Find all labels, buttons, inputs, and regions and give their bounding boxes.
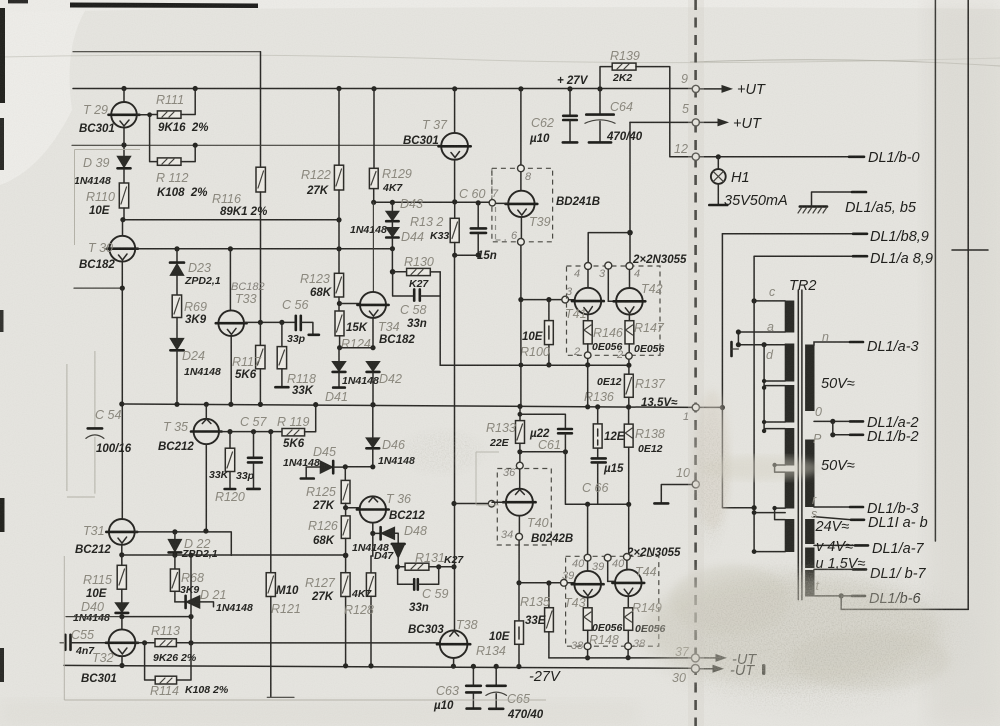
wire T33 base line xyxy=(244,320,295,325)
resistor R148 xyxy=(583,608,592,643)
label T30 xyxy=(88,241,113,255)
TR2 primary bar 5 xyxy=(785,472,794,508)
stain bottom right speckle xyxy=(640,565,950,690)
label T41 xyxy=(565,307,587,321)
tap s wire DL1/a-b xyxy=(811,507,864,521)
tap d xyxy=(736,329,785,362)
tap n wire DL1/a-3 xyxy=(814,330,863,345)
transistor T35 xyxy=(191,404,222,531)
label BC301 (T32) xyxy=(81,673,117,685)
label M10 (R121) xyxy=(276,585,299,597)
label 4n7 xyxy=(75,645,95,657)
label R136 xyxy=(584,390,614,404)
resistor R120 xyxy=(225,432,236,489)
frame line right 1 xyxy=(934,0,936,541)
label 33p (C57) xyxy=(236,470,255,482)
wire T41 column to rail xyxy=(587,365,589,407)
label 4K7 (R128) xyxy=(351,588,372,600)
tap r wire DL1/b-3 xyxy=(812,493,863,507)
resistor R132 xyxy=(450,202,459,258)
wire upper base line pin3 xyxy=(521,297,562,302)
diode D42 xyxy=(366,362,380,408)
resistor R111 xyxy=(150,89,196,119)
resistor R136 12E xyxy=(593,407,602,458)
label 5K6 (R117) xyxy=(235,369,257,381)
dashed box T43 T44 xyxy=(566,556,659,646)
label 470/40 (C64) xyxy=(606,131,643,143)
label 15K xyxy=(346,322,368,334)
label 10E (R115) xyxy=(86,588,107,600)
label DL1/b-2 xyxy=(867,429,919,445)
label 22E (R133) xyxy=(489,437,510,449)
label BD241B xyxy=(556,196,600,208)
label T37 xyxy=(422,118,448,132)
wire pin3 to T42 base xyxy=(608,269,616,301)
label D46 xyxy=(382,438,405,452)
transistor T44 xyxy=(612,560,644,608)
pin 8 xyxy=(518,165,533,183)
stain right mid xyxy=(694,390,820,530)
label ZPD2,1 xyxy=(184,275,221,287)
resistor R127 xyxy=(341,555,350,665)
TR2 secondary bar 3 xyxy=(806,520,814,544)
zener D22 xyxy=(168,532,181,555)
label R112 xyxy=(156,171,188,185)
label DL1/a 8,9 xyxy=(870,251,933,267)
label 2x2N3055 (upper) xyxy=(632,254,687,266)
resistor R115 xyxy=(117,555,126,603)
label ZPD2,1 (D22) xyxy=(181,548,218,560)
terminal 12 xyxy=(674,142,699,160)
resistor R147 xyxy=(625,321,634,353)
label D42 xyxy=(379,372,402,386)
wire T43 T44 collector columns xyxy=(588,504,629,554)
capacitor C64 electrolytic xyxy=(585,89,615,142)
label 9K26 2% xyxy=(153,652,197,664)
tap t wire DL1/b-6 xyxy=(814,579,865,599)
wire R132 node down to T38 collector xyxy=(451,255,456,630)
resistor R122 xyxy=(334,89,343,274)
terminal 30 xyxy=(672,665,699,686)
wire terminal 10 ground stub xyxy=(654,485,692,504)
label 0E12 (R137) xyxy=(597,376,622,388)
wire D45 D46 R125 node xyxy=(343,464,376,469)
pencil box C54 xyxy=(67,351,95,497)
wire T36 base xyxy=(346,507,360,509)
label T43 xyxy=(564,596,586,610)
label C61 xyxy=(538,438,561,452)
label BC212 (T35) xyxy=(158,441,194,453)
tap c xyxy=(752,285,786,304)
label 1N4148 (D47 D48) xyxy=(352,542,389,554)
wire T29 base to R111/R112 xyxy=(137,112,158,161)
wire input top xyxy=(73,51,261,53)
TR2 primary bar 3 xyxy=(785,386,794,423)
wire R124 D41 T34 emitter junction xyxy=(340,347,373,349)
lamp H1 xyxy=(709,154,727,205)
capacitor C65 electrolytic xyxy=(486,666,507,708)
capacitor C58 xyxy=(393,272,441,301)
transistor T37 xyxy=(439,89,471,202)
label D23 xyxy=(188,261,211,275)
faint pencil line bottom xyxy=(64,556,546,700)
wire -UT line xyxy=(549,657,692,659)
pin 3 (top) xyxy=(599,262,612,280)
wire pin3 to T41 xyxy=(569,299,575,301)
label D41 xyxy=(325,390,348,404)
wire lower drive bus 504 xyxy=(565,452,631,507)
wire T40 emitter column xyxy=(516,540,521,585)
transistor T36 xyxy=(357,496,389,536)
resistor R116 xyxy=(256,167,265,192)
resistor R135 xyxy=(545,583,554,658)
pin 38 (T43) xyxy=(571,640,591,652)
diode D43 xyxy=(386,202,399,227)
resistor R131 xyxy=(398,563,454,570)
capacitor C59 xyxy=(398,567,439,590)
right margin shade xyxy=(925,0,1000,726)
label C63 xyxy=(436,684,459,698)
label K108 2% (R112) xyxy=(157,187,208,199)
label 0E056 (R146) xyxy=(592,341,623,353)
dashed box T41 T42 xyxy=(567,266,661,355)
resistor R117 xyxy=(256,322,265,404)
label 2K2 xyxy=(612,72,632,84)
label 33p xyxy=(287,333,306,345)
TR2 core xyxy=(798,290,802,600)
resistor R133 xyxy=(516,406,525,462)
capacitor C63 xyxy=(466,666,481,708)
label R118 xyxy=(287,372,316,386)
arrow +UT (9) xyxy=(699,82,766,98)
resistor R123 xyxy=(334,273,343,311)
label 27K (R127) xyxy=(311,591,334,603)
label 13,5V xyxy=(641,397,678,409)
label R117 xyxy=(232,355,262,369)
label K27 (R130) xyxy=(409,278,429,290)
paper creases xyxy=(0,55,1000,62)
pencil box D39 R110 xyxy=(75,150,141,246)
label DL1I a-b xyxy=(868,515,928,531)
label T35 xyxy=(163,420,188,434)
resistor R114 xyxy=(145,555,191,684)
wire input vertical to R116 xyxy=(260,52,262,168)
pin 40b (T44 top) xyxy=(612,554,630,571)
TR2 secondary bar 4 xyxy=(806,548,814,568)
transistor T31 xyxy=(106,519,137,558)
capacitor C61 xyxy=(520,414,572,452)
pencil box terminal 7l xyxy=(476,452,499,505)
resistor R129 xyxy=(369,89,378,203)
wire +27V rail xyxy=(73,86,692,92)
diode D39 xyxy=(117,145,131,183)
label DL1/a-2 xyxy=(867,415,919,431)
label R148 xyxy=(589,633,619,647)
wire T31 emitter line xyxy=(122,553,349,559)
label 10E (R110) xyxy=(89,205,110,217)
pin 36 xyxy=(503,462,523,479)
wire T30 emitter column down to T31 xyxy=(119,288,124,519)
pin 39L (T43 base) xyxy=(561,570,575,586)
box bottom DL1 xyxy=(841,596,968,610)
transistor T40 xyxy=(492,469,536,533)
tap P wire DL1/b-2 xyxy=(813,421,863,446)
resistor R121 xyxy=(266,573,294,698)
label 2x2N3055 (lower) xyxy=(626,547,681,559)
wire pins38 to -UT rail xyxy=(585,650,631,661)
capacitor C57 xyxy=(247,432,261,489)
diode D45 xyxy=(301,461,346,479)
wire output to pin5 xyxy=(630,121,692,123)
label R115 xyxy=(83,573,112,587)
label R139 xyxy=(610,49,640,63)
label D39 xyxy=(83,156,109,170)
label 4K7 (R129) xyxy=(382,182,403,194)
wire T30 base rail to D44 node xyxy=(135,246,392,251)
label T32 xyxy=(92,651,114,665)
wire C57 node down to R121 xyxy=(270,432,272,573)
wire T34 base xyxy=(339,303,360,305)
label R132 xyxy=(410,215,443,229)
label BC182 (T30) xyxy=(79,259,115,271)
wire DL1/b8,9 xyxy=(722,233,867,235)
TR2 primary bar 4 xyxy=(785,429,794,466)
label R122 xyxy=(301,168,331,182)
connector mark left of TR2 xyxy=(732,342,739,356)
label T44 xyxy=(635,565,657,579)
label D22 xyxy=(184,537,210,551)
transistor T41 xyxy=(572,270,604,321)
label 0E056 (R147) xyxy=(634,343,665,355)
label DL1/ b-7 xyxy=(870,566,927,582)
tap a xyxy=(738,320,785,334)
wire emitter bus 365 xyxy=(440,359,631,368)
transistor T34 xyxy=(357,202,388,350)
TR2 secondary bar 1 xyxy=(806,345,814,411)
label R137 xyxy=(635,377,666,391)
arrow -UT xyxy=(700,652,758,668)
resistor R149 xyxy=(624,608,633,643)
label 33K (R120) xyxy=(209,469,230,481)
label BC182 (T34) xyxy=(379,334,415,346)
label 15n xyxy=(477,250,497,262)
label +27V xyxy=(557,75,589,87)
label C66 xyxy=(582,481,608,495)
pin 39 (top) xyxy=(592,554,611,573)
label D43 xyxy=(400,197,423,211)
label R116 xyxy=(212,192,241,206)
label 0E12 (R138) xyxy=(638,443,663,455)
label R146 xyxy=(593,326,623,340)
label R69 xyxy=(184,300,207,314)
pin 3 left (T41 base) xyxy=(562,286,573,303)
label DL1/a-3 xyxy=(867,339,919,355)
label DL1/a5,b5 xyxy=(845,200,917,216)
resistor R128 xyxy=(366,556,375,666)
label 33n (C59) xyxy=(409,602,429,614)
label R134 xyxy=(476,644,506,658)
diode D44 xyxy=(386,228,399,252)
label u15 (C66) xyxy=(603,463,624,475)
label C59 xyxy=(422,587,448,601)
label C64 xyxy=(610,100,633,114)
resistor R125 xyxy=(341,467,350,511)
label u22 (C61) xyxy=(529,428,550,440)
dashed box T40 xyxy=(497,469,551,546)
capacitor C54 xyxy=(86,428,104,438)
transistor T33 xyxy=(216,249,247,404)
transistor T42 xyxy=(614,270,646,321)
capacitor C55 xyxy=(60,635,109,650)
label 1N4148 (D45) xyxy=(283,457,320,469)
wire R116 to T33 base node xyxy=(260,192,262,322)
label C62 xyxy=(531,116,554,130)
label 10E (R100) xyxy=(522,331,543,343)
wire T36 emitter to R128 xyxy=(371,533,373,556)
resistor R139 xyxy=(600,63,692,157)
wire T31 collector rail xyxy=(134,528,231,555)
label 1N4148 (D21) xyxy=(216,602,253,614)
wire R132 C60 bottoms xyxy=(455,254,479,256)
label D45 xyxy=(313,445,336,459)
diode D40 xyxy=(115,603,128,617)
TR2 secondary bar 2 xyxy=(806,440,814,507)
label T38 xyxy=(456,618,478,632)
label 3K9 xyxy=(185,314,207,326)
stain speckle right band xyxy=(688,400,734,560)
wire output mid rail 232 xyxy=(588,122,633,262)
label 35V50mA xyxy=(724,193,788,209)
scan edge dark marks left xyxy=(0,8,5,682)
label DL1/b-3 xyxy=(867,501,919,517)
label R119 xyxy=(277,415,309,429)
wire DL1/a8,9 xyxy=(754,255,867,257)
label R114 xyxy=(150,684,179,698)
label 5K6 (R119) xyxy=(283,438,305,450)
label R124 xyxy=(341,337,371,351)
wire lower base line xyxy=(519,580,561,585)
pencil box C60 area xyxy=(491,168,493,199)
pin 4b (T42 top) xyxy=(626,263,640,281)
diode D41 xyxy=(332,348,346,388)
wire D40 T32 node xyxy=(66,614,194,619)
wire TR2 left rail a8,9 xyxy=(752,256,786,554)
frame line right 2 xyxy=(967,0,969,609)
TR2 winding links xyxy=(762,345,785,433)
label C65 xyxy=(507,692,530,706)
wire DL1/b-0 xyxy=(699,156,864,158)
wire T39 column continue xyxy=(520,300,522,407)
pin 38b (T44) xyxy=(625,638,646,650)
label 50V (2) xyxy=(821,458,855,474)
wire pin39 to T44 base xyxy=(608,561,615,581)
label D44 xyxy=(401,230,424,244)
label 89K1 2% xyxy=(220,206,267,218)
wire TR2 feed left vertical xyxy=(720,234,754,508)
label DL1/a-7 xyxy=(872,541,925,557)
transistor T30 xyxy=(107,220,138,288)
wire T37 emitter line to terminal 7 xyxy=(371,199,489,205)
pin 34 xyxy=(501,529,522,541)
capacitor C62 xyxy=(563,89,577,142)
scan edge dark strip top xyxy=(8,0,258,8)
pin 4 (T41 top) xyxy=(574,263,592,281)
wire main rail 404 / 13.5V xyxy=(122,402,723,410)
capacitor C60 xyxy=(471,203,486,258)
resistor R113 xyxy=(135,639,193,647)
label R125 xyxy=(306,485,336,499)
diode D21 xyxy=(175,596,214,609)
diode D24 xyxy=(170,338,184,404)
label C54 xyxy=(95,408,121,422)
label R129 xyxy=(382,167,412,181)
label BC212 (T31) xyxy=(75,544,111,556)
wire C58 node down to 365 rail xyxy=(439,296,441,365)
label u 1,5V xyxy=(816,556,866,572)
wire T30 emitter stub left xyxy=(74,286,125,291)
label 68K (R126) xyxy=(313,535,335,547)
wire T29 emitter / R112 line to T37 base xyxy=(72,142,441,147)
label DL1/b8,9 xyxy=(870,229,929,245)
stain speckle fold band xyxy=(392,425,492,480)
label BC182 (T33) xyxy=(231,281,265,293)
wire R110 bottom to R122 column xyxy=(120,217,341,222)
resistor R124 xyxy=(335,311,344,350)
resistor R119 xyxy=(282,405,316,436)
transistor T39 xyxy=(506,191,538,239)
resistor R146 xyxy=(583,321,592,352)
terminal 5 xyxy=(682,102,699,126)
label 1N4148 (D40) xyxy=(73,612,110,624)
label T29 xyxy=(83,103,108,117)
label R135 xyxy=(520,595,550,609)
ground DL1/a5,b5 xyxy=(798,192,866,213)
label -27V xyxy=(529,669,561,685)
wire T39 collector xyxy=(520,89,522,191)
label 9K16 2% xyxy=(158,122,209,134)
label BC303 xyxy=(408,624,444,636)
fold dashed line xyxy=(694,0,697,726)
label R147 xyxy=(634,321,665,335)
label R126 xyxy=(308,519,338,533)
resistor R130 xyxy=(390,249,440,276)
resistor R100 xyxy=(545,300,554,368)
transistor T29 xyxy=(109,89,140,146)
terminal 37 xyxy=(675,645,699,662)
label D21 xyxy=(200,588,226,602)
resistor R110 xyxy=(119,183,128,220)
resistor R138 xyxy=(624,407,633,504)
label R128 xyxy=(344,603,374,617)
TR2 primary bar 2 xyxy=(785,344,794,381)
stain speckle patch xyxy=(620,545,980,723)
tap v wire DL1/a-7 xyxy=(814,544,868,546)
label R127 xyxy=(305,576,336,590)
terminal 10 xyxy=(676,466,699,488)
label 27K (R122) xyxy=(306,185,329,197)
tap u wire DL1/b-7 xyxy=(814,568,866,570)
TR2 winding links lower xyxy=(772,463,785,520)
tap 0 wire DL1/a-2 xyxy=(814,405,863,424)
pin 6 xyxy=(511,230,524,245)
label K108 2% (R114) xyxy=(185,684,229,696)
TR2 secondary bar 5 xyxy=(806,571,814,597)
label R123 xyxy=(300,272,330,286)
label R113 xyxy=(151,624,180,638)
resistor R69 xyxy=(172,295,181,338)
label BD242B xyxy=(531,533,573,545)
label BC301 (T37) xyxy=(403,135,439,147)
